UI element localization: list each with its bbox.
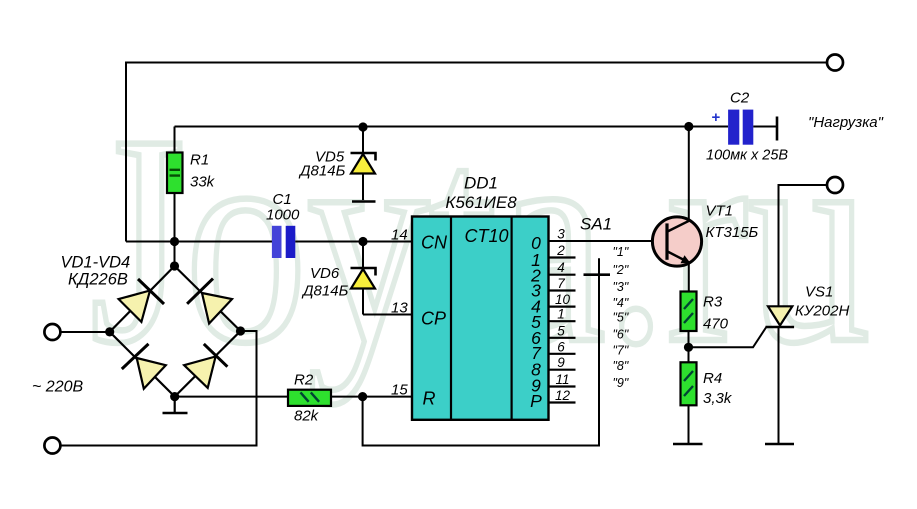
junction dot VD6 top (358, 237, 367, 246)
svg-text:R2: R2 (294, 372, 314, 389)
svg-text:10: 10 (555, 292, 571, 307)
svg-text:2: 2 (556, 243, 565, 258)
label pin 15 (391, 382, 408, 399)
junction dot R2 right (358, 392, 367, 401)
wire R1 bottom lead (174, 193, 176, 266)
label R3 (703, 294, 729, 333)
svg-text:P: P (530, 391, 542, 411)
svg-text:1: 1 (557, 307, 565, 322)
label VD5 (298, 149, 346, 180)
svg-text:SA1: SA1 (580, 215, 612, 234)
svg-text:R4: R4 (703, 370, 722, 387)
diode VD3 (bottom-left) (122, 344, 166, 389)
pin stub 2 (549, 256, 576, 258)
junction dot bridge left (105, 327, 114, 336)
label Nagruzka (808, 114, 884, 131)
svg-text:12: 12 (555, 388, 571, 403)
svg-text:3,3k: 3,3k (703, 390, 733, 407)
label C2 (730, 90, 750, 107)
pin stub 1 (549, 320, 576, 322)
svg-text:R: R (423, 389, 436, 409)
svg-text:4: 4 (557, 260, 565, 275)
wire rail to C1 (126, 241, 272, 243)
svg-text:100мк x 25В: 100мк x 25В (706, 148, 788, 164)
watermark (90, 73, 870, 406)
svg-text:C1: C1 (273, 191, 292, 208)
pin stub 12 (549, 401, 576, 403)
svg-text:"2": "2" (613, 263, 629, 277)
wire gate to VS1 (689, 328, 767, 348)
IC internal labels (421, 226, 509, 409)
wire AC bottom to bridge right (61, 331, 257, 446)
svg-text:VT1: VT1 (706, 203, 734, 220)
svg-text:КТ315Б: КТ315Б (706, 224, 759, 241)
pin numbers right (555, 227, 571, 404)
wire pin3 to VT1 base (549, 240, 653, 242)
wire VD6 to pin13 (363, 314, 412, 316)
svg-text:7: 7 (557, 276, 565, 291)
wire C1 to pin14 (295, 241, 412, 243)
svg-text:15: 15 (391, 382, 408, 399)
capacitor C1 (272, 226, 295, 258)
svg-text:VD1-VD4: VD1-VD4 (61, 254, 131, 272)
capacitor C2 (728, 110, 777, 145)
junction dot bridge bottom (170, 392, 179, 401)
svg-text:"9": "9" (613, 376, 629, 390)
switch position labels (613, 245, 629, 390)
label R2 (294, 372, 320, 425)
wire VT1 collector (688, 127, 690, 222)
label VD1-VD4 (61, 254, 131, 289)
pin stub 6 (549, 353, 576, 355)
wire top rail (126, 62, 826, 64)
svg-text:"8": "8" (613, 359, 629, 373)
svg-text:14: 14 (391, 227, 408, 244)
svg-text:6: 6 (557, 339, 565, 354)
svg-text:CP: CP (421, 309, 446, 329)
terminal top-right (827, 55, 843, 71)
pin stub 7 (549, 289, 576, 291)
svg-text:VS1: VS1 (805, 284, 833, 301)
svg-text:9: 9 (557, 355, 565, 370)
diode VD1 (top-left) (119, 279, 164, 322)
ground below bridge (163, 397, 188, 413)
svg-text:CN: CN (421, 233, 448, 253)
svg-text:"7": "7" (613, 343, 629, 357)
pin stub 4 (549, 274, 576, 276)
wire R2 to pin15 (331, 396, 412, 398)
label VD6 (301, 265, 349, 300)
svg-text:82k: 82k (294, 408, 320, 425)
IC output digits (530, 233, 542, 411)
svg-text:"3": "3" (613, 280, 629, 294)
zener diode VD6 (351, 242, 376, 315)
label plus (712, 109, 721, 126)
svg-text:5: 5 (557, 323, 565, 338)
diode VD2 (top-right) (187, 279, 232, 324)
pin stub 5 (549, 337, 576, 339)
svg-text:11: 11 (555, 372, 569, 387)
pin stub 11 (549, 385, 576, 387)
label C1 (266, 191, 300, 224)
svg-text:КУ202Н: КУ202Н (795, 303, 849, 320)
svg-text:К561ИЕ8: К561ИЕ8 (445, 193, 517, 212)
label pin 14 (391, 227, 408, 244)
terminal load right (827, 177, 843, 193)
diode VD4 (bottom-right) (184, 344, 227, 388)
label SA1 (580, 215, 612, 234)
wire SA1 common return (363, 258, 599, 445)
svg-text:Д814Б: Д814Б (301, 283, 349, 300)
svg-text:R1: R1 (190, 152, 209, 169)
resistor R3 (681, 292, 697, 332)
svg-text:~ 220В: ~ 220В (32, 379, 83, 396)
resistor R1 (167, 153, 183, 194)
label VS1 (795, 284, 849, 320)
svg-text:VD6: VD6 (310, 265, 340, 282)
svg-text:КД226В: КД226В (68, 271, 128, 289)
zener diode VD5 (351, 127, 376, 202)
svg-text:Д814Б: Д814Б (298, 163, 346, 180)
svg-text:"1": "1" (613, 245, 629, 259)
svg-text:1000: 1000 (266, 207, 300, 224)
label DD1 (445, 174, 517, 213)
svg-text:"4": "4" (613, 296, 629, 310)
wire bridge bottom to R2 (175, 396, 288, 398)
label R1 (190, 152, 216, 191)
wire AC top to bridge (61, 331, 111, 333)
terminal AC bottom (44, 438, 60, 454)
junction dot collector rail (684, 122, 693, 131)
pin stub 10 (549, 306, 576, 308)
junction dot bridge top (170, 261, 179, 270)
svg-text:"6": "6" (613, 327, 629, 341)
wire bridge edges (110, 266, 241, 397)
svg-text:470: 470 (703, 316, 729, 333)
wire plus rail (175, 126, 729, 128)
svg-text:DD1: DD1 (464, 174, 498, 193)
wire VT1 emitter (688, 264, 690, 292)
wire left drop (125, 62, 127, 242)
wire terminal to VS1 (779, 185, 828, 306)
svg-text:+: + (712, 109, 721, 126)
label C2 value (706, 148, 788, 164)
svg-text:C2: C2 (730, 90, 750, 107)
label VT1 (706, 203, 759, 242)
junction dot R1 bottom (170, 237, 179, 246)
transistor VT1 (652, 217, 701, 266)
switch SA1 wiper bar (584, 273, 611, 276)
ground below R4 (673, 443, 703, 446)
svg-text:13: 13 (391, 300, 408, 317)
junction dot gate (684, 343, 693, 352)
label ~220V (32, 379, 83, 396)
resistor R2 (288, 390, 331, 406)
IC DD1 K561IE8 (412, 217, 549, 420)
svg-text:"5": "5" (613, 311, 629, 325)
svg-text:33k: 33k (190, 174, 216, 191)
svg-text:"Нагрузка": "Нагрузка" (808, 114, 884, 131)
label R4 (703, 370, 733, 407)
label pin 13 (391, 300, 408, 317)
junction dot VD5 top (358, 122, 367, 131)
junction dot bridge right (236, 326, 245, 335)
ground below VS1 (765, 443, 794, 446)
wire R1 top lead (174, 127, 176, 154)
thyristor VS1 (765, 306, 794, 443)
wire R3 to R4 (688, 331, 690, 362)
svg-text:R3: R3 (703, 294, 723, 311)
svg-text:CT10: CT10 (465, 226, 509, 246)
svg-text:3: 3 (557, 227, 565, 242)
pin stub 9 (549, 369, 576, 371)
wire R4 bottom (688, 405, 690, 443)
resistor R4 (681, 362, 697, 405)
terminal AC top (44, 324, 60, 340)
